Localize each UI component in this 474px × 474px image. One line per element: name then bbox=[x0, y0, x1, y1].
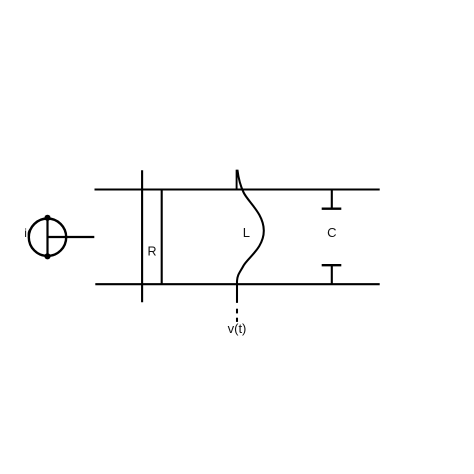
capacitor C bottom plate bbox=[322, 264, 342, 266]
capacitor C top stem bbox=[331, 190, 333, 209]
resistor R right line bbox=[161, 190, 163, 285]
resistor R left line bbox=[141, 170, 143, 302]
svg-text:C: C bbox=[327, 225, 336, 240]
svg-text:R: R bbox=[147, 244, 156, 258]
capacitor C bottom stem bbox=[331, 265, 333, 284]
wire bottom rail bbox=[95, 283, 379, 285]
wire top rail bbox=[95, 188, 380, 190]
capacitor C top plate bbox=[322, 208, 342, 210]
inductor L top stub bbox=[236, 170, 238, 190]
inductor dashed lead bbox=[236, 309, 238, 314]
inductor L curve bbox=[237, 170, 264, 303]
svg-text:v(t): v(t) bbox=[228, 321, 247, 336]
wire from source bbox=[48, 236, 95, 238]
current source I1 bbox=[29, 215, 66, 260]
svg-text:L: L bbox=[243, 225, 250, 240]
